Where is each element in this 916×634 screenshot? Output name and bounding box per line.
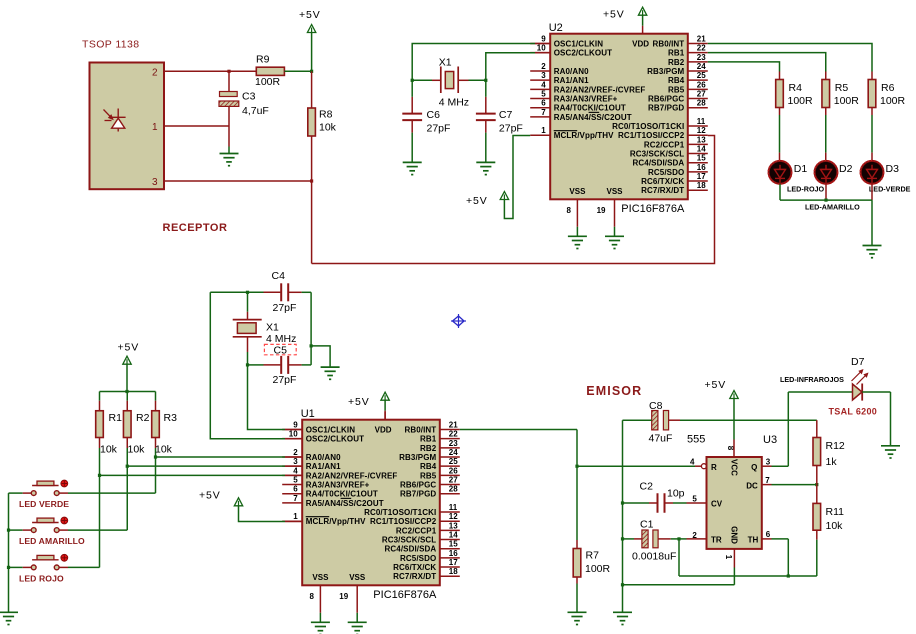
svg-text:TSOP 1138: TSOP 1138: [82, 39, 140, 51]
svg-text:17: 17: [449, 558, 458, 567]
svg-text:X1: X1: [266, 322, 279, 334]
svg-text:OSC2/CLKOUT: OSC2/CLKOUT: [554, 49, 612, 58]
svg-text:RC3/SCK/SCL: RC3/SCK/SCL: [630, 150, 684, 159]
svg-text:RA5/AN4/SS/C2OUT: RA5/AN4/SS/C2OUT: [554, 113, 632, 122]
svg-text:D3: D3: [886, 163, 900, 175]
svg-text:DC: DC: [746, 482, 758, 491]
svg-text:+5V: +5V: [299, 9, 321, 21]
svg-text:27pF: 27pF: [273, 374, 297, 386]
svg-text:RC0/T1OSO/T1CKI: RC0/T1OSO/T1CKI: [364, 508, 436, 517]
svg-text:RC2/CCP1: RC2/CCP1: [396, 526, 437, 535]
svg-text:17: 17: [697, 172, 706, 181]
svg-text:100R: 100R: [834, 95, 860, 107]
svg-text:27pF: 27pF: [273, 302, 297, 314]
svg-text:10k: 10k: [128, 443, 146, 455]
svg-text:C1: C1: [640, 518, 654, 530]
svg-text:RA4/T0CKI/C1OUT: RA4/T0CKI/C1OUT: [306, 490, 378, 499]
svg-text:27pF: 27pF: [427, 122, 451, 134]
svg-text:RA3/AN3/VREF+: RA3/AN3/VREF+: [554, 95, 618, 104]
svg-text:22: 22: [697, 44, 706, 53]
svg-text:LED AMARILLO: LED AMARILLO: [19, 536, 85, 546]
svg-text:3: 3: [293, 457, 298, 466]
svg-text:RA0/AN0: RA0/AN0: [306, 453, 341, 462]
svg-text:R12: R12: [826, 440, 845, 452]
svg-text:EMISOR: EMISOR: [586, 384, 642, 398]
svg-text:CV: CV: [711, 500, 723, 509]
svg-text:U3: U3: [763, 434, 777, 446]
svg-text:C7: C7: [499, 109, 513, 121]
svg-text:555: 555: [687, 434, 705, 446]
svg-text:27: 27: [697, 90, 706, 99]
svg-text:R6: R6: [881, 82, 895, 94]
svg-text:RB4: RB4: [668, 76, 685, 85]
svg-text:11: 11: [449, 503, 458, 512]
svg-text:PIC16F876A: PIC16F876A: [621, 203, 685, 215]
svg-text:10k: 10k: [826, 520, 844, 532]
svg-text:R7: R7: [586, 550, 600, 562]
svg-text:0.0018uF: 0.0018uF: [632, 551, 676, 563]
svg-text:RB5: RB5: [668, 85, 685, 94]
svg-text:VDD: VDD: [632, 40, 649, 49]
svg-text:RB7/PGD: RB7/PGD: [648, 104, 684, 113]
svg-text:+5V: +5V: [118, 342, 140, 354]
svg-text:16: 16: [449, 549, 458, 558]
svg-text:21: 21: [697, 35, 706, 44]
svg-text:RA3/AN3/VREF+: RA3/AN3/VREF+: [306, 481, 370, 490]
svg-text:18: 18: [449, 567, 458, 576]
svg-text:RC3/SCK/SCL: RC3/SCK/SCL: [382, 536, 436, 545]
svg-text:RA4/T0CKI/C1OUT: RA4/T0CKI/C1OUT: [554, 104, 626, 113]
svg-text:C6: C6: [427, 109, 441, 121]
svg-text:4: 4: [541, 80, 546, 89]
svg-text:100R: 100R: [880, 95, 906, 107]
svg-text:VSS: VSS: [349, 573, 366, 582]
svg-text:RC1/T1OSI/CCP2: RC1/T1OSI/CCP2: [618, 131, 685, 140]
svg-text:R4: R4: [789, 82, 803, 94]
svg-text:U2: U2: [549, 22, 563, 34]
svg-text:5: 5: [293, 476, 298, 485]
svg-text:+5V: +5V: [466, 195, 488, 207]
svg-text:10p: 10p: [667, 488, 685, 500]
svg-text:5: 5: [692, 495, 697, 504]
svg-text:GND: GND: [730, 526, 739, 544]
svg-text:RC5/SDO: RC5/SDO: [648, 168, 684, 177]
svg-text:27pF: 27pF: [499, 122, 523, 134]
svg-text:LED-ROJO: LED-ROJO: [787, 185, 825, 194]
svg-text:47uF: 47uF: [649, 432, 673, 444]
svg-text:7: 7: [541, 108, 546, 117]
svg-text:MCLR/Vpp/THV: MCLR/Vpp/THV: [306, 517, 366, 526]
svg-text:RB6/PGC: RB6/PGC: [648, 95, 684, 104]
svg-text:RA5/AN4/SS/C2OUT: RA5/AN4/SS/C2OUT: [306, 499, 384, 508]
svg-text:RB3/PGM: RB3/PGM: [647, 67, 684, 76]
svg-text:12: 12: [449, 512, 458, 521]
svg-text:RB4: RB4: [420, 462, 437, 471]
svg-text:24: 24: [697, 62, 706, 71]
svg-text:7: 7: [293, 494, 298, 503]
svg-text:RC0/T1OSO/T1CKI: RC0/T1OSO/T1CKI: [612, 122, 684, 131]
svg-text:15: 15: [449, 540, 458, 549]
svg-text:RA0/AN0: RA0/AN0: [554, 67, 589, 76]
svg-text:RC7/RX/DT: RC7/RX/DT: [641, 186, 684, 195]
svg-text:RA1/AN1: RA1/AN1: [306, 462, 341, 471]
svg-text:27: 27: [449, 476, 458, 485]
svg-text:LED VERDE: LED VERDE: [19, 499, 69, 509]
svg-text:OSC1/CLKIN: OSC1/CLKIN: [554, 40, 604, 49]
svg-text:14: 14: [697, 145, 706, 154]
svg-text:2: 2: [541, 62, 546, 71]
svg-text:RC1/T1OSI/CCP2: RC1/T1OSI/CCP2: [370, 517, 437, 526]
svg-text:VCC: VCC: [730, 459, 739, 476]
svg-text:8: 8: [566, 206, 571, 215]
svg-text:U1: U1: [301, 408, 315, 420]
svg-text:23: 23: [449, 439, 458, 448]
svg-text:LED-INFRAROJOS: LED-INFRAROJOS: [780, 375, 844, 384]
svg-text:7: 7: [765, 476, 770, 485]
svg-text:10k: 10k: [100, 443, 118, 455]
svg-text:OSC1/CLKIN: OSC1/CLKIN: [306, 426, 356, 435]
svg-text:LED-AMARILLO: LED-AMARILLO: [805, 203, 860, 212]
svg-text:R2: R2: [136, 412, 150, 424]
svg-text:2: 2: [152, 67, 158, 78]
svg-text:RC6/TX/CK: RC6/TX/CK: [393, 563, 436, 572]
svg-text:4,7uF: 4,7uF: [242, 105, 269, 117]
svg-text:22: 22: [449, 430, 458, 439]
svg-text:C4: C4: [272, 270, 286, 282]
svg-text:8: 8: [309, 592, 314, 601]
svg-text:+5V: +5V: [603, 9, 625, 21]
svg-text:10: 10: [289, 430, 298, 439]
svg-text:RB6/PGC: RB6/PGC: [400, 481, 436, 490]
svg-text:4: 4: [293, 466, 298, 475]
svg-text:18: 18: [697, 181, 706, 190]
svg-text:10: 10: [537, 44, 546, 53]
svg-text:26: 26: [697, 80, 706, 89]
svg-text:9: 9: [541, 35, 546, 44]
svg-text:13: 13: [449, 521, 458, 530]
svg-text:RB3/PGM: RB3/PGM: [399, 453, 436, 462]
svg-text:4 MHz: 4 MHz: [266, 333, 296, 345]
svg-text:RECEPTOR: RECEPTOR: [163, 222, 228, 234]
svg-text:3: 3: [152, 177, 158, 188]
svg-text:TH: TH: [748, 535, 759, 544]
svg-text:C3: C3: [242, 91, 256, 103]
svg-text:28: 28: [697, 99, 706, 108]
svg-text:4 MHz: 4 MHz: [439, 96, 469, 108]
svg-text:6: 6: [541, 99, 546, 108]
svg-text:2: 2: [293, 448, 298, 457]
svg-text:RA1/AN1: RA1/AN1: [554, 76, 589, 85]
svg-text:+5V: +5V: [705, 379, 727, 391]
svg-text:RA2/AN2/VREF-/CVREF: RA2/AN2/VREF-/CVREF: [554, 85, 646, 94]
svg-text:PIC16F876A: PIC16F876A: [373, 589, 437, 601]
svg-text:3: 3: [766, 458, 771, 467]
svg-text:C2: C2: [640, 481, 654, 493]
svg-text:26: 26: [449, 466, 458, 475]
svg-text:13: 13: [697, 135, 706, 144]
svg-text:6: 6: [766, 530, 771, 539]
svg-text:TSAL 6200: TSAL 6200: [829, 407, 878, 417]
svg-text:D2: D2: [839, 163, 853, 175]
svg-text:11: 11: [697, 117, 706, 126]
svg-text:100R: 100R: [788, 95, 814, 107]
svg-text:28: 28: [449, 485, 458, 494]
svg-text:RC2/CCP1: RC2/CCP1: [644, 140, 685, 149]
svg-text:RB0/INT: RB0/INT: [652, 40, 684, 49]
svg-text:R8: R8: [319, 109, 333, 121]
svg-text:RC4/SDI/SDA: RC4/SDI/SDA: [385, 545, 437, 554]
svg-text:19: 19: [339, 592, 348, 601]
svg-text:RB1: RB1: [420, 435, 437, 444]
svg-text:LED-VERDE: LED-VERDE: [869, 185, 911, 194]
svg-text:25: 25: [449, 457, 458, 466]
svg-text:R9: R9: [256, 54, 270, 66]
svg-text:R3: R3: [164, 412, 178, 424]
svg-text:VSS: VSS: [569, 187, 586, 196]
svg-text:VDD: VDD: [375, 426, 392, 435]
svg-text:RC5/SDO: RC5/SDO: [400, 554, 436, 563]
svg-text:1: 1: [724, 555, 733, 560]
svg-text:RB5: RB5: [420, 471, 437, 480]
svg-text:R1: R1: [109, 412, 123, 424]
svg-text:RB7/PGD: RB7/PGD: [400, 490, 436, 499]
svg-text:VSS: VSS: [312, 573, 329, 582]
svg-text:RB2: RB2: [668, 58, 685, 67]
svg-text:Q: Q: [751, 463, 757, 472]
svg-text:10k: 10k: [319, 122, 337, 134]
svg-text:1: 1: [541, 126, 546, 135]
svg-text:TR: TR: [711, 535, 722, 544]
svg-text:25: 25: [697, 71, 706, 80]
svg-text:D7: D7: [851, 356, 865, 368]
svg-text:12: 12: [697, 126, 706, 135]
svg-text:C5: C5: [274, 344, 288, 356]
svg-text:100R: 100R: [255, 76, 281, 88]
svg-text:X1: X1: [439, 57, 452, 69]
svg-text:21: 21: [449, 421, 458, 430]
svg-text:100R: 100R: [585, 563, 611, 575]
svg-text:R: R: [711, 463, 717, 472]
svg-text:1: 1: [293, 512, 298, 521]
svg-text:MCLR/Vpp/THV: MCLR/Vpp/THV: [554, 131, 614, 140]
svg-text:24: 24: [449, 448, 458, 457]
svg-text:1: 1: [152, 122, 158, 133]
svg-text:RB0/INT: RB0/INT: [404, 426, 436, 435]
svg-text:3: 3: [541, 71, 546, 80]
svg-text:RB1: RB1: [668, 49, 685, 58]
svg-text:5: 5: [541, 90, 546, 99]
svg-text:9: 9: [293, 421, 298, 430]
svg-text:16: 16: [697, 163, 706, 172]
svg-text:+5V: +5V: [348, 396, 370, 408]
svg-text:10k: 10k: [155, 443, 173, 455]
svg-text:LED ROJO: LED ROJO: [19, 573, 64, 583]
svg-text:RC7/RX/DT: RC7/RX/DT: [393, 572, 436, 581]
svg-text:6: 6: [293, 485, 298, 494]
svg-text:14: 14: [449, 531, 458, 540]
svg-text:4: 4: [690, 458, 695, 467]
svg-text:RC4/SDI/SDA: RC4/SDI/SDA: [633, 159, 685, 168]
svg-text:OSC2/CLKOUT: OSC2/CLKOUT: [306, 435, 364, 444]
svg-text:23: 23: [697, 53, 706, 62]
svg-text:RB2: RB2: [420, 444, 437, 453]
svg-text:15: 15: [697, 154, 706, 163]
svg-text:+5V: +5V: [199, 490, 221, 502]
svg-text:R5: R5: [835, 82, 849, 94]
svg-text:R11: R11: [826, 506, 845, 518]
svg-text:RA2/AN2/VREF-/CVREF: RA2/AN2/VREF-/CVREF: [306, 471, 398, 480]
svg-text:VSS: VSS: [606, 187, 623, 196]
svg-text:1k: 1k: [826, 456, 838, 468]
svg-text:RC6/TX/CK: RC6/TX/CK: [641, 177, 684, 186]
svg-text:D1: D1: [794, 163, 808, 175]
svg-text:19: 19: [597, 206, 606, 215]
